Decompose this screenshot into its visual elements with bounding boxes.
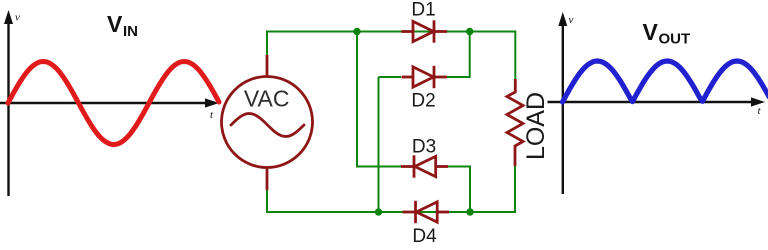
svg-text:D1: D1: [411, 0, 435, 21]
svg-text:v: v: [15, 12, 20, 24]
svg-text:D4: D4: [412, 226, 437, 247]
svg-text:LOAD: LOAD: [522, 92, 550, 160]
svg-text:V: V: [643, 19, 659, 45]
svg-text:IN: IN: [123, 23, 138, 40]
svg-text:D3: D3: [412, 137, 436, 158]
svg-text:OUT: OUT: [659, 31, 691, 48]
svg-text:VAC: VAC: [244, 86, 290, 112]
svg-text:V: V: [107, 11, 123, 37]
svg-text:D2: D2: [411, 91, 435, 112]
svg-text:v: v: [569, 14, 574, 26]
